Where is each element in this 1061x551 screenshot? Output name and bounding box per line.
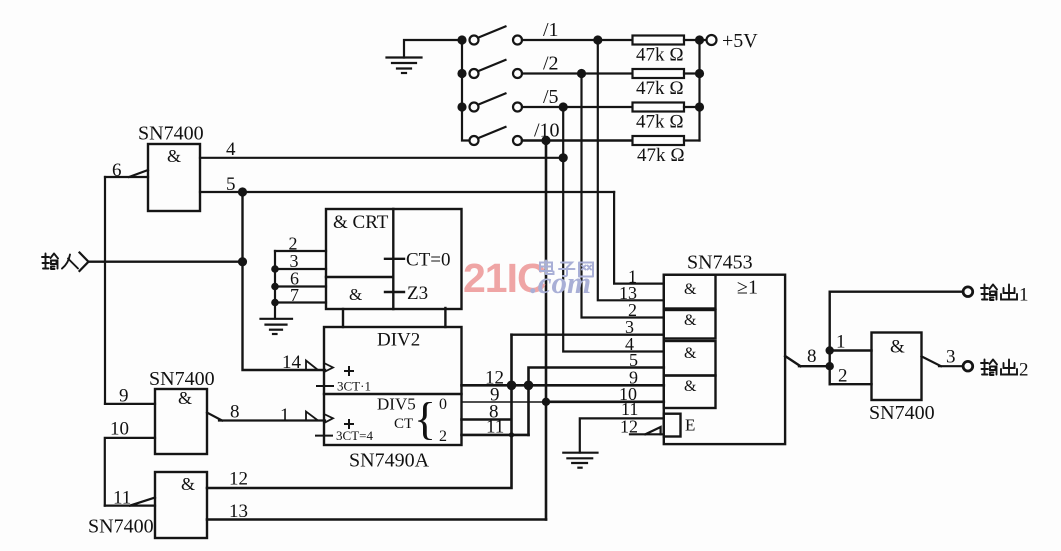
svg-text:&: & — [349, 285, 362, 304]
wire U6 pin9 to U7 pin 10 — [462, 401, 547, 403]
wire net /10 — [522, 141, 633, 520]
svg-text:2: 2 — [1019, 360, 1029, 381]
svg-text:/10: /10 — [534, 120, 560, 142]
svg-text:DIV2: DIV2 — [377, 330, 420, 351]
gate U4 SN7400 box — [872, 333, 922, 401]
svg-text:Z3: Z3 — [407, 283, 428, 304]
svg-text:{: { — [414, 393, 436, 444]
pin 14 clock triangle of U6 — [306, 361, 333, 373]
svg-text:8: 8 — [230, 402, 240, 423]
svg-text:12: 12 — [620, 417, 638, 437]
svg-text:CT: CT — [394, 416, 413, 432]
svg-text:14: 14 — [282, 352, 302, 373]
svg-text:47k Ω: 47k Ω — [636, 78, 684, 99]
terminal output1 — [963, 287, 973, 297]
wire U6 pin12 to U7 pin 9 — [462, 384, 664, 387]
svg-text:3CT·1: 3CT·1 — [337, 379, 371, 394]
svg-text:/2: /2 — [543, 53, 559, 75]
svg-text:&: & — [178, 388, 192, 408]
svg-text:&: & — [684, 345, 697, 362]
svg-text:7: 7 — [290, 285, 299, 305]
gate U1 SN7400 box — [148, 144, 200, 211]
svg-text:& CRT: & CRT — [333, 212, 389, 233]
svg-text:8: 8 — [807, 346, 817, 367]
svg-text:SN7490A: SN7490A — [349, 450, 430, 472]
labels of U6 SN7490A — [336, 330, 447, 472]
svg-text:2: 2 — [439, 428, 447, 445]
resistor R1 47k — [633, 36, 707, 45]
svg-text:SN7400: SN7400 — [149, 368, 215, 390]
or-gate U7 SN7453 box — [664, 275, 785, 444]
wire U5 input bus pins 2 3 6 7 — [275, 251, 326, 319]
input terminal chevron — [80, 253, 89, 272]
output2 terminal label — [981, 360, 1017, 376]
pin 11 wire of U3 — [105, 498, 155, 506]
svg-text:+5V: +5V — [722, 30, 758, 52]
pin number labels of U3 — [113, 469, 248, 523]
switch S4 — [470, 127, 523, 146]
svg-text:3CT=4: 3CT=4 — [336, 428, 373, 443]
wire switch pole bus — [462, 40, 470, 141]
pin number labels of U1 — [112, 139, 236, 195]
svg-text:DIV5: DIV5 — [377, 395, 416, 414]
terminal +5V — [707, 35, 717, 45]
pin 8 wire of U2 to U6 pin 1 — [207, 413, 325, 421]
wire node A vertical to U6 pin 14 — [243, 192, 326, 370]
svg-text:&: & — [684, 281, 697, 298]
value labels 47k ohm — [636, 45, 685, 167]
pin number labels 8 1 2 3 of output stage — [807, 332, 956, 387]
switch S1 — [470, 26, 523, 45]
pin ticks of U6 — [316, 367, 353, 436]
svg-text:6: 6 — [112, 160, 122, 181]
labels of U7 SN7453 — [684, 252, 758, 435]
wire U7 pin 5 net — [529, 368, 664, 435]
resistor R3 47k — [633, 103, 700, 112]
pin 1 wire of U4 — [830, 349, 872, 351]
pin 2 wire of U4 — [830, 383, 872, 385]
svg-text:13: 13 — [229, 501, 248, 522]
wire U1 pin6 to U2 pin9 vertical — [104, 177, 106, 404]
pin 9 wire of U2 — [105, 403, 155, 405]
svg-text:47k Ω: 47k Ω — [636, 45, 684, 66]
svg-text:&: & — [890, 337, 905, 358]
svg-text:CT=0: CT=0 — [406, 250, 451, 271]
wire net /2 — [522, 74, 664, 318]
resistor R4 47k — [633, 136, 700, 145]
svg-text:1: 1 — [280, 405, 290, 426]
svg-text:47k Ω: 47k Ω — [637, 145, 685, 166]
pin number labels 14 1 12 9 8 11 of U6 — [280, 352, 504, 438]
gate U3 SN7400 box — [155, 472, 207, 538]
pin 6 wire of U1 — [105, 170, 148, 177]
switch S3 — [470, 93, 523, 112]
ground G1 top-left — [387, 40, 463, 73]
node labels /1 /2 /5 /10 — [534, 19, 560, 142]
pin 12 wire of U3 — [207, 335, 512, 488]
svg-text:SN7453: SN7453 — [687, 252, 753, 274]
pin 3 output wire of U4 — [922, 356, 964, 366]
switch S2 — [470, 60, 523, 79]
svg-text:/5: /5 — [543, 86, 559, 108]
ground G3 with wire to U7 pin 11 — [563, 418, 664, 467]
svg-text:SN7400: SN7400 — [138, 123, 204, 145]
label U1 SN7400 — [138, 123, 204, 167]
label U3 SN7400 — [88, 474, 195, 538]
op-block U5 Z3 CRT box — [326, 209, 462, 327]
pin 5 wire of U1 to U7 pin 1 — [200, 192, 664, 284]
svg-text:/1: /1 — [543, 19, 559, 41]
svg-text:2: 2 — [838, 366, 848, 387]
pin 12 stub of U7 with slash — [630, 427, 664, 434]
svg-text:5: 5 — [226, 174, 236, 195]
svg-text:SN7400: SN7400 — [88, 516, 154, 538]
ground G2 below pin bus — [261, 319, 293, 334]
wire net /1 — [522, 40, 664, 300]
svg-text:10: 10 — [110, 419, 129, 440]
wire output1 net — [830, 291, 964, 293]
pin 10 wire of U2 — [105, 438, 155, 506]
svg-text:&: & — [167, 146, 181, 166]
pin 13 wire of U3 — [207, 518, 546, 521]
pin 4 wire of U1 — [200, 157, 563, 159]
wire U7 pin 3 net — [512, 334, 664, 336]
pin 1 clock triangle of U6 — [306, 412, 333, 424]
resistor R2 47k — [633, 69, 700, 78]
svg-text:4: 4 — [226, 139, 236, 160]
wire +5V rail — [698, 40, 700, 141]
counter U6 SN7490A box — [324, 327, 462, 445]
svg-text:&: & — [684, 378, 697, 395]
pin number labels of U2 — [110, 386, 240, 440]
label U4 SN7400 — [869, 337, 935, 425]
svg-text:SN7400: SN7400 — [869, 402, 935, 424]
label U2 SN7400 — [149, 368, 215, 408]
svg-text:9: 9 — [119, 386, 129, 407]
svg-text:&: & — [181, 474, 195, 494]
svg-text:0: 0 — [439, 396, 447, 413]
pin number labels 2 3 6 7 of U5 — [289, 234, 300, 306]
wire net /5 — [522, 107, 664, 352]
output1 terminal label — [981, 285, 1017, 301]
svg-text:&: & — [684, 312, 697, 329]
svg-text:11: 11 — [486, 417, 504, 438]
svg-text:1: 1 — [836, 332, 846, 353]
input terminal label — [42, 254, 78, 270]
svg-text:1: 1 — [1019, 285, 1029, 306]
labels of U5 Z3 — [333, 212, 451, 304]
svg-text:47k Ω: 47k Ω — [636, 112, 684, 133]
svg-text:3: 3 — [946, 347, 956, 368]
wire input net — [89, 261, 243, 263]
gate U2 SN7400 box — [155, 389, 207, 454]
terminal output2 — [963, 361, 973, 371]
pin number labels of U7 left side — [619, 267, 638, 437]
svg-text:E: E — [685, 416, 695, 435]
svg-text:12: 12 — [229, 469, 248, 490]
wire U6 pin 11 — [462, 434, 529, 437]
label +5V — [722, 30, 758, 52]
pin 8 output wire of U7 — [785, 292, 830, 385]
svg-text:≥1: ≥1 — [737, 277, 758, 299]
wire U6 pin 8 — [462, 418, 512, 421]
svg-text:11: 11 — [113, 488, 131, 509]
